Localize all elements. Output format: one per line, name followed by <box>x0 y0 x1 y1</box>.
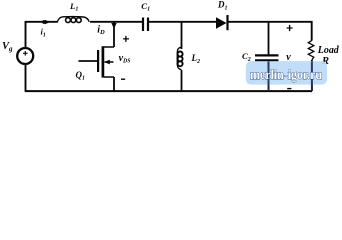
inductor L1 coil <box>57 17 89 23</box>
svg-text:L1: L1 <box>69 1 78 13</box>
minus of output v <box>287 88 291 90</box>
wire: L2 tap from top rail <box>181 22 183 49</box>
wire: top rail from diode to right corner, down to load <box>229 22 312 41</box>
mosfet gate lead <box>79 60 98 62</box>
capacitor C2 plates <box>255 54 279 56</box>
plus inside source <box>23 51 28 56</box>
wire: top rail from C1 to diode <box>149 21 216 23</box>
minus of vDS <box>121 78 125 80</box>
diode D1 <box>216 17 227 29</box>
wire: C2 tap from top rail <box>268 22 270 55</box>
svg-text:Q1: Q1 <box>76 70 86 82</box>
wire: L2 bottom to bottom rail <box>181 70 183 91</box>
wire: top rail from L1 to C1 <box>90 21 142 23</box>
svg-text:L2: L2 <box>191 53 201 65</box>
wire: C2 lead over band <box>268 61 270 91</box>
svg-text:vDS: vDS <box>119 53 131 65</box>
svg-text:iD: iD <box>97 24 105 36</box>
wire: source bottom to bottom rail <box>25 64 27 91</box>
inductor L2 coil <box>177 47 181 69</box>
wire: load lead over band <box>311 61 313 91</box>
mosfet channel line <box>102 46 105 77</box>
wire: top rail left segment from source to L1 <box>26 22 58 48</box>
svg-text:merlin-igor.ru: merlin-igor.ru <box>250 68 322 83</box>
mosfet gate plate <box>97 50 99 72</box>
resistor R zigzag <box>308 41 314 60</box>
watermark band <box>246 61 327 85</box>
plus of vDS <box>123 36 129 42</box>
mosfet body arrow <box>104 60 110 65</box>
voltage source Vg circle <box>17 48 33 64</box>
svg-text:Load: Load <box>317 44 339 56</box>
svg-text:C1: C1 <box>141 1 150 13</box>
mosfet source wire to bottom rail <box>113 77 115 91</box>
wire: resistor bottom to bottom rail <box>311 60 313 91</box>
bottom rail <box>25 90 312 92</box>
svg-text:i1: i1 <box>41 27 46 39</box>
plus of output v <box>287 25 293 31</box>
capacitor C1 plates <box>142 18 144 32</box>
iD arrow on drain <box>111 23 116 29</box>
node i1 arrow on top rail <box>42 20 46 24</box>
svg-text:C2: C2 <box>242 51 251 63</box>
svg-text:D1: D1 <box>217 0 228 11</box>
mosfet Q1 drain wire from rail <box>113 22 115 47</box>
mosfet Q1 body <box>104 47 114 77</box>
wire: C2 bottom to bottom rail <box>268 60 270 91</box>
svg-text:Vg: Vg <box>2 41 13 53</box>
